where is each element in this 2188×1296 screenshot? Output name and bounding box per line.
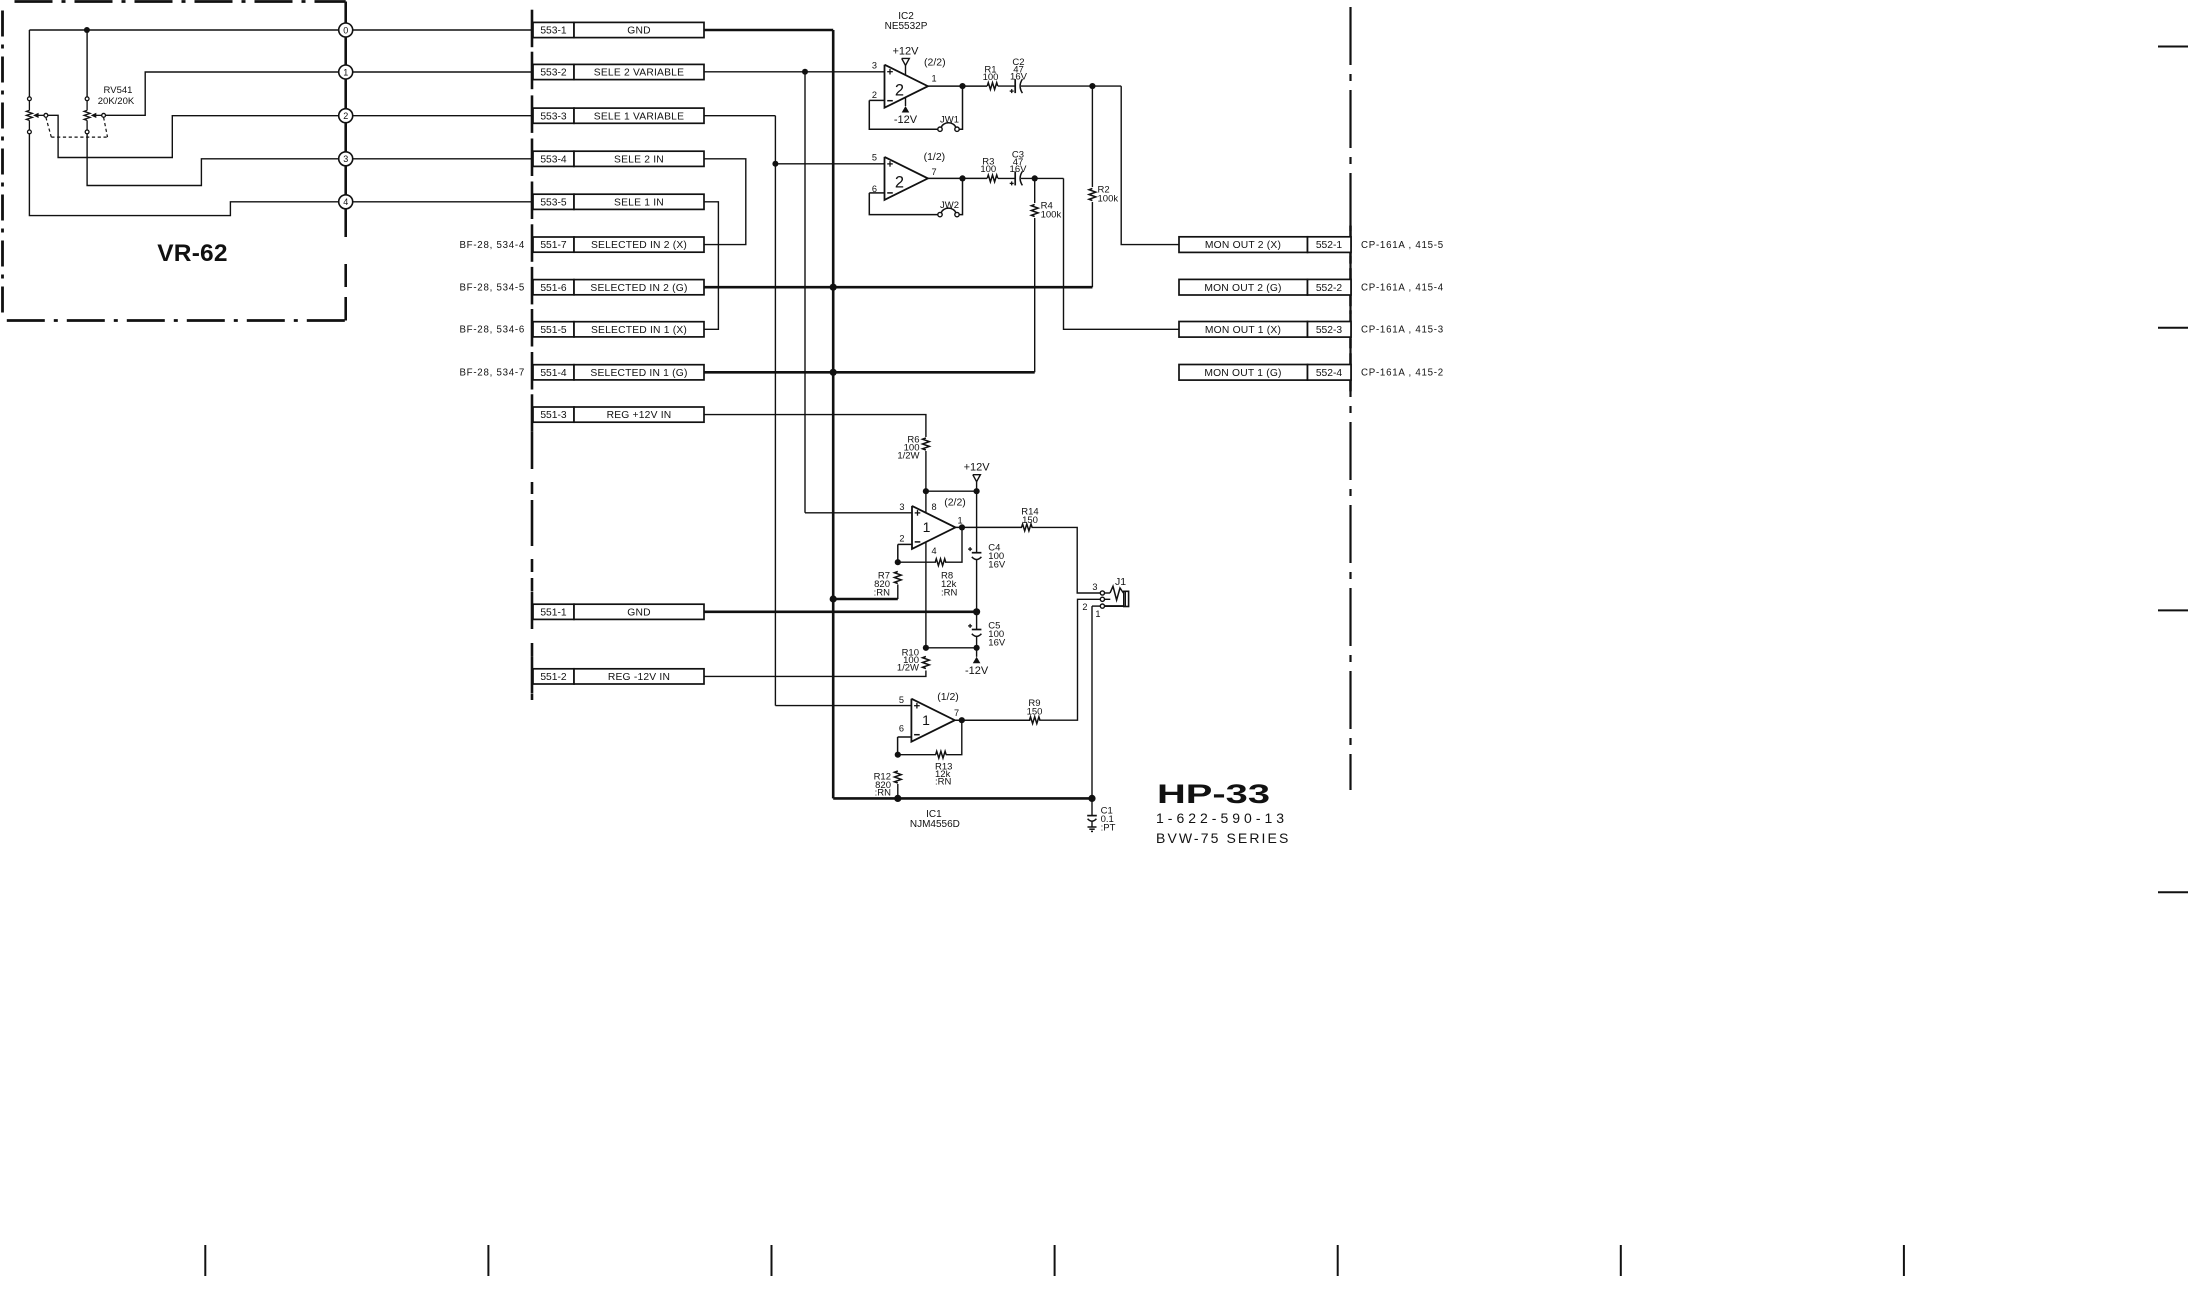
svg-text:553-5: 553-5	[540, 197, 567, 208]
svg-text:BF-28, 534-7: BF-28, 534-7	[459, 368, 525, 379]
svg-text:551-2: 551-2	[540, 672, 567, 683]
svg-text:REG -12V IN: REG -12V IN	[608, 672, 670, 683]
svg-text:552-2: 552-2	[1316, 283, 1343, 294]
svg-text:552-4: 552-4	[1316, 368, 1343, 379]
svg-text:16V: 16V	[1010, 71, 1028, 82]
svg-text:553-4: 553-4	[540, 154, 567, 165]
svg-text:CP-161A , 415-5: CP-161A , 415-5	[1361, 240, 1444, 251]
svg-text:1: 1	[1095, 609, 1100, 619]
svg-text:NJM4556D: NJM4556D	[910, 819, 960, 830]
svg-text:RV541: RV541	[104, 85, 133, 96]
svg-text:16V: 16V	[1010, 164, 1028, 175]
svg-text:1/2W: 1/2W	[897, 663, 919, 674]
svg-text:CP-161A , 415-2: CP-161A , 415-2	[1361, 368, 1444, 379]
svg-text:6: 6	[899, 724, 904, 734]
svg-text:(2/2): (2/2)	[924, 57, 946, 69]
svg-text:3: 3	[1092, 582, 1097, 592]
svg-text:2: 2	[895, 174, 904, 192]
svg-text:1-622-590-13: 1-622-590-13	[1156, 810, 1288, 826]
svg-text:MON OUT 1 (X): MON OUT 1 (X)	[1205, 325, 1281, 336]
svg-text:7: 7	[931, 167, 936, 177]
svg-text:(2/2): (2/2)	[944, 497, 966, 509]
svg-text:MON OUT 2 (X): MON OUT 2 (X)	[1205, 240, 1281, 251]
svg-text:8: 8	[932, 502, 937, 512]
svg-text:SELE 2 VARIABLE: SELE 2 VARIABLE	[594, 68, 684, 79]
svg-text:SELECTED IN 1 (G): SELECTED IN 1 (G)	[590, 368, 687, 379]
svg-text:GND: GND	[627, 607, 650, 618]
svg-text:1: 1	[922, 712, 930, 728]
svg-text::RN: :RN	[874, 588, 891, 599]
svg-text:GND: GND	[627, 26, 650, 37]
svg-text:150: 150	[1027, 707, 1043, 718]
svg-text:MON OUT 2 (G): MON OUT 2 (G)	[1204, 283, 1281, 294]
svg-text:J1: J1	[1115, 576, 1126, 588]
svg-text:SELE 2 IN: SELE 2 IN	[614, 154, 664, 165]
svg-text:BF-28, 534-4: BF-28, 534-4	[459, 240, 525, 251]
svg-text:551-3: 551-3	[540, 410, 567, 421]
svg-text:2: 2	[872, 90, 877, 100]
svg-text:553-3: 553-3	[540, 111, 567, 122]
svg-text:SELE 1 IN: SELE 1 IN	[614, 197, 664, 208]
svg-text:(1/2): (1/2)	[924, 151, 946, 163]
svg-text:551-1: 551-1	[540, 607, 567, 618]
svg-text:(1/2): (1/2)	[937, 691, 959, 703]
svg-text:2: 2	[895, 82, 904, 100]
svg-text:0: 0	[343, 25, 348, 35]
svg-text:+12V: +12V	[964, 462, 991, 474]
svg-text:+12V: +12V	[893, 45, 920, 57]
svg-text:100: 100	[983, 72, 999, 83]
svg-text:BF-28, 534-6: BF-28, 534-6	[459, 325, 525, 336]
svg-text::RN: :RN	[935, 777, 952, 788]
svg-text:4: 4	[932, 546, 937, 556]
svg-text::RN: :RN	[941, 588, 958, 599]
svg-text:551-4: 551-4	[540, 368, 567, 379]
svg-text:100k: 100k	[1041, 209, 1062, 220]
svg-text:REG +12V IN: REG +12V IN	[607, 410, 672, 421]
svg-text:553-1: 553-1	[540, 26, 567, 37]
svg-text:JW1: JW1	[940, 115, 959, 126]
svg-text:3: 3	[343, 154, 348, 164]
svg-text:553-2: 553-2	[540, 68, 567, 79]
svg-text:5: 5	[899, 695, 904, 705]
svg-text:3: 3	[872, 61, 877, 71]
svg-text:NE5532P: NE5532P	[885, 21, 928, 32]
svg-text:3: 3	[899, 502, 904, 512]
svg-text:2: 2	[343, 111, 348, 121]
svg-text:SELECTED IN 1 (X): SELECTED IN 1 (X)	[591, 325, 687, 336]
svg-text:2: 2	[1082, 602, 1087, 612]
svg-text:1: 1	[343, 67, 348, 77]
svg-text:-12V: -12V	[894, 114, 918, 126]
svg-text:5: 5	[872, 153, 877, 163]
svg-text:551-7: 551-7	[540, 240, 567, 251]
svg-text:JW2: JW2	[940, 200, 959, 211]
svg-text:7: 7	[954, 708, 959, 718]
svg-text:1/2W: 1/2W	[897, 450, 919, 461]
svg-text:4: 4	[343, 197, 348, 207]
svg-text:1: 1	[923, 519, 931, 535]
svg-text:552-3: 552-3	[1316, 325, 1343, 336]
svg-text:150: 150	[1022, 515, 1038, 526]
svg-text:-12V: -12V	[965, 665, 989, 677]
svg-text:16V: 16V	[988, 559, 1006, 570]
svg-text:CP-161A , 415-4: CP-161A , 415-4	[1361, 283, 1444, 294]
svg-text:100k: 100k	[1098, 194, 1119, 205]
svg-text::RN: :RN	[875, 787, 892, 798]
svg-text:551-5: 551-5	[540, 325, 567, 336]
svg-text:HP-33: HP-33	[1157, 779, 1270, 809]
svg-text:VR-62: VR-62	[157, 240, 227, 267]
svg-text:CP-161A , 415-3: CP-161A , 415-3	[1361, 325, 1444, 336]
svg-text:16V: 16V	[988, 637, 1006, 648]
svg-text:100: 100	[980, 164, 996, 175]
svg-text::PT: :PT	[1101, 823, 1116, 834]
svg-text:2: 2	[899, 534, 904, 544]
svg-text:552-1: 552-1	[1316, 240, 1343, 251]
svg-text:551-6: 551-6	[540, 283, 567, 294]
svg-text:SELECTED IN 2 (G): SELECTED IN 2 (G)	[590, 283, 687, 294]
svg-text:SELE 1 VARIABLE: SELE 1 VARIABLE	[594, 111, 684, 122]
svg-text:MON OUT 1 (G): MON OUT 1 (G)	[1204, 368, 1281, 379]
svg-text:20K/20K: 20K/20K	[98, 96, 135, 107]
svg-text:BVW-75 SERIES: BVW-75 SERIES	[1156, 830, 1290, 846]
svg-text:BF-28, 534-5: BF-28, 534-5	[459, 283, 525, 294]
svg-text:1: 1	[957, 516, 962, 526]
svg-text:SELECTED IN 2 (X): SELECTED IN 2 (X)	[591, 240, 687, 251]
svg-text:1: 1	[931, 74, 936, 84]
